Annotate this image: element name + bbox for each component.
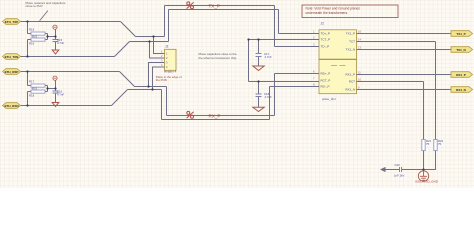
svg-text:R16: R16 (29, 41, 35, 45)
resistor R17 (31, 84, 45, 87)
svg-text:ETH_RXP: ETH_RXP (5, 70, 19, 74)
wire drop to TD+ row (278, 10, 280, 34)
wire junction to C20 (402, 169, 424, 171)
wire pair1 node vertical (47, 34, 49, 40)
svg-text:R18: R18 (29, 93, 35, 97)
svg-text:RX1_P: RX1_P (345, 73, 355, 77)
power port circle pair1 (53, 25, 57, 29)
wire TCT row (249, 39, 320, 41)
port RD_N right (451, 87, 473, 93)
junction C17 tap (257, 38, 259, 40)
capacitor C17 (256, 54, 262, 57)
wire jog down outer (161, 90, 163, 120)
wire pair1 cap lower stem (55, 42, 57, 50)
svg-text:ETH_RXN: ETH_RXN (4, 104, 18, 108)
wire R22 bottom (424, 151, 436, 170)
svg-text:TX1_N: TX1_N (346, 48, 355, 52)
junction funnel1 (152, 35, 154, 37)
wire RCT row (249, 81, 320, 83)
text C20 (394, 163, 405, 178)
wire right RCT out (357, 81, 424, 83)
resistor R22 (434, 140, 437, 151)
wire funnel2 horizontal (130, 41, 169, 43)
wire pair2 cap stem down (55, 89, 57, 91)
svg-text:4.7nF: 4.7nF (57, 92, 64, 96)
text R21 (426, 139, 432, 146)
svg-text:the ethernet transceiver chip.: the ethernet transceiver chip. (199, 56, 238, 60)
power port arrow chassis (380, 167, 386, 172)
diff pair marker bottom (187, 111, 194, 118)
wire TD+ row (279, 33, 320, 35)
junction isolated gnd (422, 168, 424, 170)
wire C17 lower stem (258, 57, 260, 66)
svg-text:TD-_P: TD-_P (321, 45, 330, 49)
text R22 (438, 139, 444, 146)
svg-text:1nF 2kV: 1nF 2kV (394, 174, 405, 178)
junction TCT corner (247, 38, 249, 40)
port ETH_RXP (3, 69, 21, 75)
capacitor C20 series (400, 167, 402, 172)
wire rise to RD+ row (274, 74, 276, 116)
resistor R18 (31, 90, 45, 93)
svg-text:4.7nF: 4.7nF (57, 41, 64, 45)
wire pair2 cap stem up (55, 81, 57, 89)
wire R21 bottom (423, 151, 425, 170)
wire pair2 cap lower stem (55, 94, 57, 103)
ground C17 (253, 66, 264, 71)
wire TX1P out (357, 33, 452, 35)
wire pair2 left drop (27, 72, 29, 86)
wire right TCT drop (435, 42, 437, 140)
header J1 (161, 45, 177, 74)
svg-text:4.7nF: 4.7nF (265, 95, 272, 99)
resistor R16 (31, 38, 45, 41)
note place on edge (156, 75, 182, 82)
capacitor C18 (256, 94, 262, 97)
junction pair2 node (46, 87, 48, 89)
junction port1 branch (26, 20, 28, 22)
wire R17 pins (28, 85, 32, 87)
svg-text:49.9: 49.9 (32, 34, 38, 38)
svg-text:ETH_TXN: ETH_TXN (5, 55, 19, 59)
wire pair1 cap stem down (55, 37, 57, 40)
wire port1 ETH_TXP horizontal (21, 21, 121, 23)
text C18 (264, 92, 272, 99)
svg-text:RX1_N: RX1_N (345, 88, 355, 92)
power port circle pair2 (53, 76, 57, 80)
wire right TCT out (357, 41, 436, 43)
wire pair2 node to cap (48, 88, 56, 90)
wire C18 stem (258, 82, 260, 95)
svg-text:C20: C20 (395, 163, 401, 167)
svg-text:75: 75 (438, 142, 442, 146)
wire pair2 node vertical (47, 86, 49, 92)
wire R18 pins (28, 91, 32, 93)
svg-text:ISOLATED_GND: ISOLATED_GND (415, 180, 439, 184)
svg-text:TCT: TCT (349, 40, 355, 44)
junction funnel2 (148, 40, 150, 42)
svg-text:75: 75 (426, 142, 430, 146)
svg-text:7: 7 (313, 77, 315, 81)
svg-text:TD+_P: TD+_P (321, 32, 330, 36)
text C17 (264, 52, 272, 59)
wire RD- row (270, 86, 320, 88)
svg-text:Note: Void Power and Ground p: Note: Void Power and Ground planes (306, 7, 361, 11)
svg-text:RX1_P: RX1_P (456, 73, 466, 77)
resistor R15 (31, 32, 45, 35)
junction funnel3 (147, 85, 149, 87)
wire RX1N out (357, 89, 452, 91)
capacitor C16 (53, 91, 59, 93)
wire drop to TD- row (274, 6, 276, 47)
wire center tap link vertical (248, 40, 250, 82)
resistor R21 (422, 140, 425, 151)
wire jog down inner (166, 87, 168, 116)
svg-text:R17: R17 (29, 79, 35, 83)
junction pair1 cap node (54, 35, 56, 37)
svg-text:TX1_P: TX1_P (346, 32, 355, 36)
wire riser to top outer (164, 6, 166, 37)
port RD_P right (451, 72, 473, 78)
svg-text:ETH_TXP: ETH_TXP (5, 20, 19, 24)
ground pair2 (52, 103, 59, 107)
port ETH_TXN (3, 54, 21, 60)
wire bottom outer horizontal (162, 119, 270, 121)
note middle (199, 52, 238, 60)
svg-text:underneath the transformers.: underneath the transformers. (306, 11, 349, 15)
text C15 (57, 38, 64, 45)
port TD_P right (451, 31, 473, 37)
wire TX1N out (357, 49, 452, 51)
ground pair1 (52, 50, 59, 54)
diff pair marker top (187, 2, 194, 9)
svg-text:pulse_tfmr: pulse_tfmr (322, 97, 336, 101)
svg-text:RX1_N: RX1_N (456, 88, 466, 92)
wire header pin1 L-run (154, 37, 165, 54)
wire pair2 left rise (27, 92, 29, 106)
svg-text:RCT_P: RCT_P (321, 79, 331, 83)
wire bottom inner horizontal (167, 115, 275, 117)
wire funnel3 horizontal (135, 86, 167, 88)
svg-text:Header 4: Header 4 (164, 70, 177, 74)
note top left (26, 1, 67, 8)
capacitor C15 (53, 40, 59, 42)
junction port3 branch (26, 70, 28, 72)
wire R15 pins (28, 33, 32, 35)
wire funnel1 horizontal (136, 36, 165, 38)
junction pair1 node (46, 35, 48, 37)
svg-text:J2: J2 (321, 21, 325, 25)
port ETH_TXP (3, 19, 21, 25)
ground C18 (253, 107, 264, 111)
wire diag port2 funnel (115, 42, 130, 57)
svg-text:4.7nF: 4.7nF (265, 55, 272, 59)
wire funnel4 horizontal (128, 89, 162, 91)
svg-text:the PCB.: the PCB. (156, 78, 168, 82)
junction port4 branch (26, 104, 28, 106)
junction pair2 cap node (54, 87, 56, 89)
wire right RCT drop (423, 82, 425, 140)
leader line from note (40, 11, 48, 21)
wire header pin4 L-run (153, 67, 165, 90)
wire earth stem (423, 170, 425, 172)
note box top right (302, 5, 398, 18)
svg-text:TX1_P: TX1_P (456, 32, 465, 36)
svg-text:TCT_P: TCT_P (321, 38, 331, 42)
junction port2 branch (26, 55, 28, 57)
wire pair1 cap stem up (55, 30, 57, 37)
svg-text:TX_P: TX_P (209, 4, 221, 9)
wire diag port1 funnel (121, 22, 136, 37)
wire pair1 left drop (27, 22, 29, 34)
wire pair1 node to cap (48, 36, 56, 38)
power port earth ISOLATED_GND (418, 171, 428, 181)
svg-text:49.9: 49.9 (32, 86, 38, 90)
text R15 (29, 27, 37, 45)
svg-text:close to PHY.: close to PHY. (26, 4, 44, 8)
wire C17 stem (258, 40, 260, 54)
port ETH_RXN (3, 103, 21, 109)
wire RX1P out (357, 74, 452, 76)
transformer J2 (312, 21, 365, 101)
wire riser to top inner (168, 10, 170, 42)
wire rise to RD- row (269, 87, 271, 120)
wire header pin3 L-run (149, 63, 165, 87)
junction C18 tap (257, 80, 259, 82)
wire R16 pins (28, 39, 32, 41)
wire top inner horizontal (169, 9, 279, 11)
junction funnel4 (151, 88, 153, 90)
svg-text:J1: J1 (165, 45, 169, 49)
wire port3 ETH_RXP horizontal (21, 71, 120, 73)
wire diag port4 funnel (112, 90, 128, 106)
wire C18 lower stem (258, 97, 260, 108)
text C16 (57, 89, 64, 96)
wire port4 ETH_RXN horizontal (21, 105, 112, 107)
text R17 (29, 79, 37, 97)
svg-text:RD+_P: RD+_P (321, 72, 331, 76)
wire RD+ row (275, 73, 320, 75)
svg-text:R15: R15 (29, 27, 35, 31)
wire C20 to arrow (386, 169, 400, 171)
port TD_N right (451, 47, 473, 53)
wire pair1 left rise (27, 40, 29, 57)
wire header pin2 L-run (150, 42, 165, 59)
svg-text:RX_P: RX_P (209, 114, 221, 119)
svg-text:TX1_N: TX1_N (456, 48, 465, 52)
wire port2 ETH_TXN horizontal (21, 56, 115, 58)
wire top outer horizontal (165, 5, 275, 7)
wire TD- row (275, 46, 320, 48)
svg-text:RCT: RCT (349, 80, 355, 84)
wire diag port3 funnel (120, 72, 135, 87)
svg-text:RD-_P: RD-_P (321, 85, 330, 89)
